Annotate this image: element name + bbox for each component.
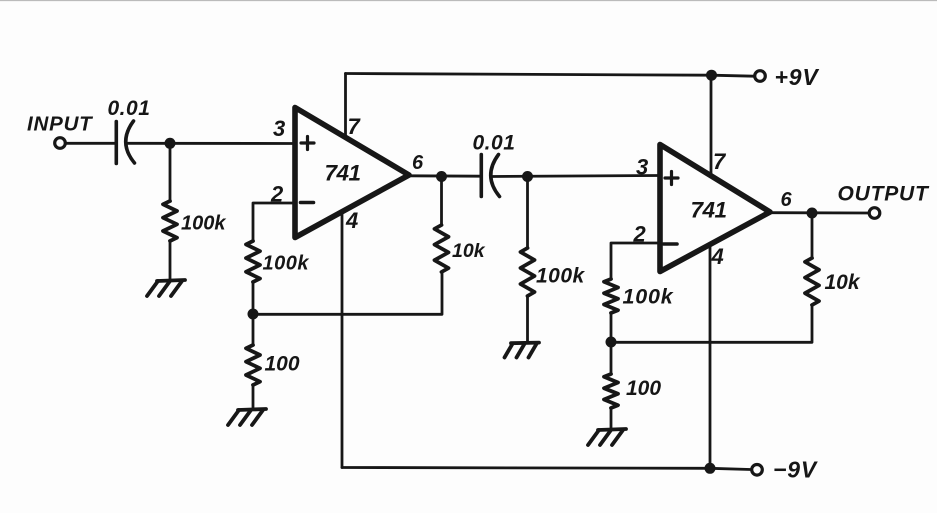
svg-text:10k: 10k [825, 271, 861, 294]
U1 plus sign [301, 137, 314, 150]
svg-text:3: 3 [273, 116, 285, 141]
node +9V rail junction dot [706, 70, 717, 81]
wire R8 top to output node [811, 213, 814, 258]
svg-text:INPUT: INPUT [27, 113, 93, 136]
resistor R2 10k [435, 225, 449, 272]
wire mid node down to R5 [526, 177, 529, 249]
resistor R5 100k (mid) [521, 248, 535, 296]
U2 pin 2 wire [611, 243, 659, 279]
node B junction dot [248, 309, 259, 320]
U1 output wire [409, 174, 480, 177]
U2 pin 4 wire [709, 245, 712, 468]
U1 feedback bottom wire [253, 272, 442, 314]
wire node B down to R4 [252, 314, 255, 345]
svg-text:4: 4 [345, 208, 358, 233]
node -9V rail junction dot [705, 463, 716, 474]
capacitor C1 0.01 [116, 121, 134, 164]
resistor R4 100 [246, 345, 260, 385]
wire R6 to node C [610, 313, 613, 342]
resistor R7 100 [604, 374, 618, 408]
svg-text:100k: 100k [181, 213, 226, 235]
wire R3 to node B [252, 282, 255, 314]
svg-text:741: 741 [691, 198, 727, 223]
svg-text:OUTPUT: OUTPUT [838, 183, 930, 206]
wire node C down to R7 [610, 342, 613, 374]
op-amp U1 741 triangle [295, 108, 409, 238]
U1 minus sign [301, 201, 314, 205]
svg-text:+9V: +9V [775, 64, 820, 90]
wire R7 to ground [610, 408, 613, 429]
wire C2 to U2 pin3 [492, 176, 660, 177]
svg-text:100k: 100k [623, 285, 674, 309]
U2 plus sign [665, 172, 678, 185]
svg-text:6: 6 [781, 189, 793, 211]
resistor R6 100k (U2 feedback) [604, 279, 618, 313]
node C junction dot [606, 337, 617, 348]
-9V terminal [752, 465, 763, 476]
resistor R8 10k [805, 258, 819, 305]
svg-text:0.01: 0.01 [473, 132, 516, 155]
node junction dot input [165, 138, 176, 149]
svg-text:7: 7 [713, 149, 727, 174]
ground (U2 network) [588, 429, 626, 445]
svg-text:4: 4 [711, 244, 724, 269]
wire R4 to ground [252, 385, 255, 409]
wire R1 to ground [169, 241, 172, 280]
ground (mid) [505, 343, 540, 358]
+9V rail wire [346, 74, 754, 77]
wire input to C1 [66, 142, 115, 145]
resistor R3 100k (U1 feedback) [246, 241, 260, 282]
ground (input) [147, 280, 185, 296]
svg-text:−9V: −9V [773, 457, 818, 483]
U2 feedback bottom wire [611, 305, 812, 342]
wire C1 to U1 pin3 [127, 142, 295, 145]
svg-text:100: 100 [626, 377, 661, 400]
svg-text:6: 6 [412, 152, 424, 174]
svg-text:100k: 100k [536, 265, 586, 288]
svg-text:7: 7 [348, 114, 362, 139]
node output U1 junction dot [436, 171, 447, 182]
op-amp U2 741 triangle [660, 145, 770, 272]
node output U2 junction dot [807, 208, 818, 219]
wire R5 to ground [526, 296, 529, 343]
U1 pin 7 wire [344, 74, 347, 137]
scan edge line top [0, 0, 937, 2]
U1 pin 2 wire [253, 203, 294, 241]
U2 pin 7 wire [710, 75, 713, 176]
svg-text:100k: 100k [263, 253, 310, 275]
svg-text:0.01: 0.01 [108, 97, 151, 120]
svg-text:3: 3 [636, 155, 648, 180]
ground (U1 network) [228, 409, 266, 425]
+9V terminal [755, 71, 766, 82]
output terminal [869, 208, 880, 219]
svg-text:741: 741 [325, 161, 361, 186]
U2 minus sign [664, 242, 678, 246]
wire node down to R1 [169, 143, 172, 201]
capacitor C2 0.01 [481, 155, 499, 197]
wire R2 top to output node [440, 177, 443, 226]
node junction dot mid [522, 171, 533, 182]
U2 output wire [770, 211, 869, 214]
resistor R1 100k [163, 201, 177, 241]
svg-text:10k: 10k [452, 240, 486, 262]
-9V rail wire [342, 468, 751, 470]
U1 pin 4 wire [341, 212, 344, 468]
svg-text:100: 100 [265, 353, 300, 376]
input terminal [55, 138, 66, 149]
